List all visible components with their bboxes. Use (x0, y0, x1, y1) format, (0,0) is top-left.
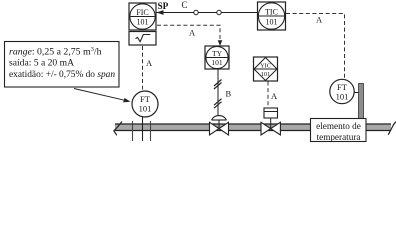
pipe break right (388, 122, 396, 135)
svg-text:101: 101 (336, 91, 349, 101)
square root extractor (129, 32, 156, 46)
transducer TY101 (205, 46, 229, 69)
svg-text:temperatura: temperatura (317, 132, 361, 142)
svg-text:saída: 5 a 20 mA: saída: 5 a 20 mA (9, 58, 74, 69)
orifice tap right (150, 121, 152, 141)
svg-text:range: 0,25 a 2,75 m3/h: range: 0,25 a 2,75 m3/h (9, 46, 102, 57)
svg-text:YIC: YIC (260, 63, 271, 70)
svg-text:SP: SP (158, 2, 169, 12)
impulse line FT101 (142, 116, 144, 141)
svg-text:C: C (182, 0, 188, 10)
note box range/saida/exatidao (5, 42, 120, 88)
leader arrow from note box to FT101 (74, 89, 131, 103)
interlock YIC101 (254, 57, 278, 81)
on-off valve body (261, 122, 280, 135)
svg-text:FT: FT (140, 94, 151, 104)
temperature element box (311, 119, 367, 142)
controller TIC101 (258, 2, 286, 30)
svg-text:FIC: FIC (136, 8, 148, 17)
svg-text:TY: TY (212, 49, 223, 58)
svg-text:101: 101 (211, 58, 223, 67)
signal A FIC101 to TY101 (157, 25, 222, 46)
connector TT101 to thermowell (354, 92, 358, 94)
svg-text:101: 101 (137, 18, 149, 27)
svg-text:TIC: TIC (265, 7, 278, 16)
svg-text:A: A (316, 15, 323, 25)
svg-text:B: B (226, 89, 232, 99)
svg-text:elemento de: elemento de (316, 121, 361, 131)
pipe (115, 124, 391, 131)
thermowell (359, 84, 364, 125)
svg-text:A: A (271, 91, 278, 101)
svg-text:FT: FT (337, 82, 348, 92)
svg-text:exatidão: +/- 0,75% do span: exatidão: +/- 0,75% do span (9, 70, 115, 80)
diaphragm actuator (212, 116, 227, 129)
svg-text:A: A (146, 58, 153, 68)
signal A TIC101 to TT (286, 14, 345, 80)
data link TIC101 to FIC101 (156, 10, 257, 15)
control valve body (210, 122, 229, 135)
pneumatic signal TY101 to valve (214, 69, 222, 116)
signal A YIC101 to on-off valve (267, 82, 269, 108)
pipe break left (114, 122, 122, 136)
svg-text:101: 101 (261, 71, 270, 78)
transmitter FT101 (132, 91, 158, 117)
orifice tap left (132, 121, 134, 141)
piston actuator (264, 108, 278, 129)
controller FIC101 (129, 3, 156, 30)
transmitter TT101 (330, 79, 354, 103)
signal A FIC101 to FT101 (142, 46, 144, 90)
svg-text:101: 101 (139, 104, 152, 114)
svg-text:101: 101 (266, 17, 278, 26)
svg-text:A: A (189, 28, 196, 38)
